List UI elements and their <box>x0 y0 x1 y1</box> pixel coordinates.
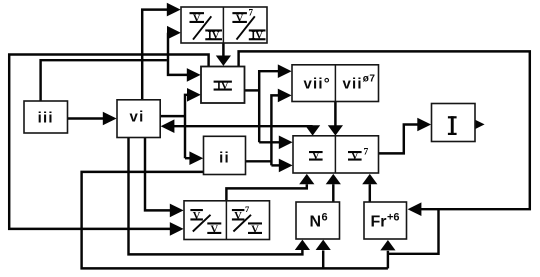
box V/IV | V7/IV <box>181 7 267 43</box>
wire vi top to V/IV box <box>142 10 167 101</box>
svg-text:IV: IV <box>217 81 229 92</box>
wire iii to vi <box>68 117 104 119</box>
label I <box>448 116 457 135</box>
wire V7 right to I <box>379 125 418 154</box>
arrow into V left (upper) <box>279 136 293 150</box>
arrow into vi right edge <box>161 119 175 133</box>
wire vi right output joining riser <box>160 115 185 117</box>
svg-text:IV: IV <box>251 31 263 42</box>
arrow into I left <box>417 118 431 132</box>
label V7 <box>348 148 369 163</box>
box Fr+6 <box>364 202 407 239</box>
svg-text:iii: iii <box>38 110 54 127</box>
wire stem into Fr+6 bottom arrow <box>387 251 389 269</box>
svg-text:ii: ii <box>219 149 230 166</box>
wire deceptive line: arrow into vi right edge, long rail, down-arrow into V top <box>172 125 313 127</box>
arrow into V/V left (upper) <box>170 204 184 218</box>
wire riser IV to viio and V arrows <box>259 71 280 142</box>
wire riser ii to viio and V arrows <box>271 95 280 165</box>
arrow into V/V left (lower) <box>170 222 184 236</box>
arrow into V top (left) <box>305 125 320 135</box>
wire vi bottom-right down to V/V <box>145 138 171 211</box>
wire stem into N6 bottom right arrow <box>322 250 324 268</box>
arrow into IV left (lower) <box>187 88 201 102</box>
wire V/V divider up and over into V bottom <box>226 184 306 201</box>
wire V/IV divider down into IV top <box>222 43 225 58</box>
box vi <box>117 100 160 138</box>
svg-text:IV: IV <box>208 31 220 42</box>
arrow into ii left <box>189 151 203 165</box>
wire Fr+6 top into V bottom <box>369 184 371 202</box>
wire vi bottom-left down to N6 <box>129 138 303 255</box>
arrow into N6 bottom (left) <box>295 240 310 250</box>
label V/V <box>190 209 221 236</box>
svg-text:V: V <box>236 13 244 24</box>
box N6 <box>296 202 340 239</box>
arrow into V/IV box left (lower) <box>167 26 181 40</box>
label V7/V <box>232 204 262 236</box>
svg-text:V: V <box>351 151 359 162</box>
arrow into V left (lower) <box>279 159 293 173</box>
label V <box>309 151 323 162</box>
box V | V7 <box>293 136 379 173</box>
wire riser vi to IV-lower and ii arrows <box>185 95 191 158</box>
box viio | vii-halfdim7 <box>292 65 379 102</box>
arrow into Fr+6 right edge <box>408 202 422 216</box>
arrow into V bottom (left) <box>299 174 314 184</box>
box I <box>432 104 476 142</box>
label IV <box>214 81 232 93</box>
wire outer-left loop: top rail into IV top, left rail down, bottom rail to V/V <box>9 55 208 229</box>
wire big right loop: from IV top up, across top, down right side, into Fr+6 <box>239 51 530 253</box>
arrow into viio left (upper) <box>278 64 292 78</box>
svg-text:7: 7 <box>364 148 369 158</box>
box VofV | V7ofV <box>184 201 270 240</box>
svg-text:vi: vi <box>130 108 145 125</box>
wire viio divider down into V top <box>334 101 337 126</box>
svg-text:V: V <box>193 211 201 222</box>
arrow into V bottom (middle) <box>326 174 341 184</box>
wire N6 top into V bottom <box>332 184 334 202</box>
arrow into vi left <box>103 112 117 126</box>
wire IV right output <box>245 89 260 91</box>
svg-text:V: V <box>211 225 219 236</box>
arrow into viio left (lower) <box>278 89 292 103</box>
box ii <box>204 136 246 174</box>
arrow into V top (right) <box>328 125 343 135</box>
wire into iii top <box>41 60 167 101</box>
arrow into IV top <box>216 56 231 66</box>
svg-text:6: 6 <box>322 212 328 224</box>
svg-text:vii°: vii° <box>304 76 331 93</box>
svg-text:V: V <box>193 13 201 24</box>
svg-text:V: V <box>251 225 259 236</box>
box IV <box>201 67 245 104</box>
svg-text:Fr: Fr <box>371 214 387 231</box>
wire ii left output big bottom loop <box>82 172 388 269</box>
svg-text:7: 7 <box>249 8 254 18</box>
wire ii right output <box>246 160 272 162</box>
svg-text:V: V <box>312 151 320 162</box>
arrow out of I right edge <box>471 118 485 132</box>
svg-text:V: V <box>234 211 242 222</box>
arrow into V bottom (right) <box>362 174 377 184</box>
label V7/IV <box>232 8 265 42</box>
label V/IV <box>190 12 223 42</box>
svg-text:N: N <box>310 214 322 231</box>
arrow into Fr+6 bottom <box>380 240 395 250</box>
arrow into N6 bottom (right) <box>316 240 331 250</box>
arrow into IV left (upper) <box>187 68 201 82</box>
box iii <box>24 101 68 133</box>
wire riser feeding V7ofIV and IV-left arrows <box>168 33 188 75</box>
arrow into V/IV box left (upper) <box>167 3 181 17</box>
svg-text:+6: +6 <box>387 212 400 224</box>
